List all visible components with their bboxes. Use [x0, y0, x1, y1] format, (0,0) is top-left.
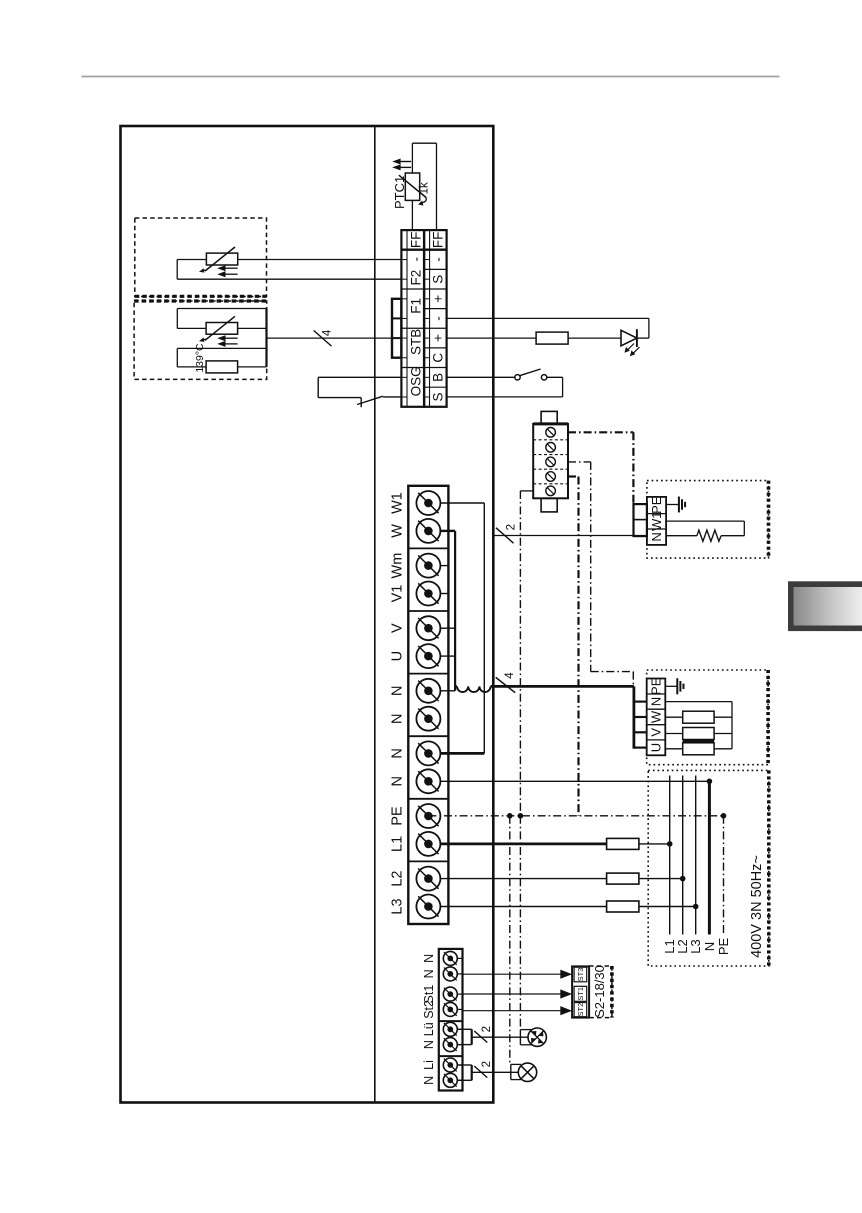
svg-text:+: +	[431, 334, 446, 342]
svg-text:N: N	[422, 1076, 436, 1085]
svg-text:N: N	[422, 954, 436, 963]
svg-text:ST1: ST1	[576, 987, 585, 1001]
svg-text:L1: L1	[390, 836, 406, 852]
svg-text:2: 2	[481, 1026, 493, 1032]
svg-text:L3: L3	[390, 898, 406, 914]
svg-text:S: S	[431, 275, 446, 284]
svg-text:+: +	[431, 295, 446, 303]
svg-text:C: C	[431, 353, 446, 363]
svg-text:Lü: Lü	[422, 1022, 436, 1036]
svg-text:FF: FF	[431, 232, 446, 249]
svg-text:ST3: ST3	[576, 968, 585, 982]
svg-text:W: W	[390, 524, 406, 538]
svg-text:PTC1: PTC1	[392, 176, 407, 209]
svg-text:St2: St2	[422, 1000, 436, 1019]
svg-text:S2-18/30: S2-18/30	[592, 965, 607, 1018]
svg-text:B: B	[431, 373, 446, 382]
svg-text:PE: PE	[649, 496, 664, 514]
svg-text:N: N	[390, 686, 406, 696]
svg-text:V: V	[649, 728, 664, 737]
svg-text:F2: F2	[408, 270, 423, 286]
svg-text:N: N	[649, 697, 664, 706]
svg-text:F1: F1	[408, 298, 423, 314]
svg-text:400V 3N 50Hz~: 400V 3N 50Hz~	[749, 855, 765, 958]
svg-text:-: -	[408, 257, 423, 262]
svg-text:1k: 1k	[418, 182, 430, 194]
svg-text:2: 2	[481, 1061, 493, 1067]
svg-text:N: N	[422, 969, 436, 978]
svg-text:4: 4	[322, 329, 334, 336]
svg-text:N: N	[649, 532, 664, 541]
svg-text:ST2: ST2	[576, 1003, 585, 1017]
svg-text:-: -	[431, 257, 446, 262]
svg-text:PE: PE	[390, 806, 406, 826]
svg-text:PE: PE	[649, 677, 664, 695]
svg-text:L2: L2	[390, 871, 406, 887]
svg-text:PE: PE	[716, 938, 731, 956]
svg-text:FF: FF	[408, 232, 423, 249]
svg-text:U: U	[390, 651, 406, 661]
svg-text:N: N	[390, 748, 406, 758]
svg-text:S: S	[431, 392, 446, 401]
svg-text:4: 4	[504, 672, 516, 679]
svg-text:N: N	[390, 776, 406, 786]
svg-text:W1: W1	[390, 492, 406, 514]
svg-text:2: 2	[506, 524, 518, 530]
svg-text:U: U	[649, 743, 664, 752]
svg-text:OSG: OSG	[408, 366, 423, 396]
svg-text:Wm: Wm	[390, 553, 406, 579]
svg-text:W1: W1	[649, 512, 664, 532]
svg-text:Li: Li	[422, 1060, 436, 1070]
svg-text:STB: STB	[408, 329, 423, 355]
svg-text:V1: V1	[390, 585, 406, 603]
svg-text:N: N	[390, 713, 406, 723]
svg-text:-: -	[431, 316, 446, 321]
svg-text:139°C: 139°C	[194, 343, 206, 373]
svg-text:N: N	[422, 1040, 436, 1049]
svg-text:W: W	[649, 710, 664, 723]
svg-text:N: N	[702, 942, 717, 951]
svg-text:V: V	[390, 623, 406, 633]
